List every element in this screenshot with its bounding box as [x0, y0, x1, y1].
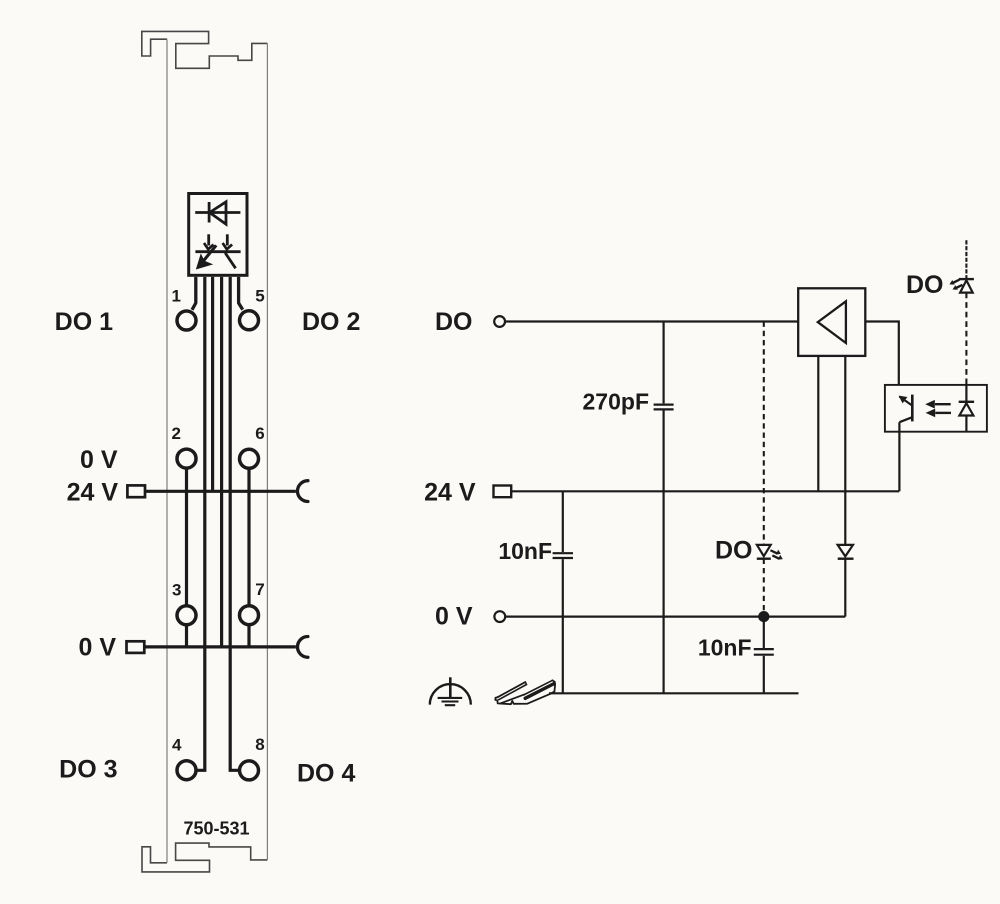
- svg-text:DO 1: DO 1: [55, 308, 113, 336]
- pin wire 5 (to contact 8): [230, 277, 238, 770]
- dashed optical link lower: [763, 559, 765, 612]
- 24V rail right schematic: [511, 490, 899, 492]
- wire contact6-contact7: [247, 468, 250, 606]
- svg-text:10nF: 10nF: [698, 634, 752, 660]
- 24V square terminal left: [127, 485, 145, 497]
- phototransistor emitter arrowhead: [899, 396, 908, 404]
- svg-text:5: 5: [255, 286, 264, 305]
- svg-text:DO 2: DO 2: [302, 308, 360, 336]
- svg-text:1: 1: [172, 286, 181, 305]
- wire 270pF branch upper: [662, 322, 664, 404]
- 0V rail left: [144, 645, 296, 648]
- phototransistor Q1: [899, 395, 912, 492]
- svg-text:750-531: 750-531: [183, 819, 249, 839]
- contact 3: [177, 606, 196, 625]
- module body outline 750-531: [142, 31, 268, 68]
- wire 10nF1 branch upper: [562, 491, 564, 552]
- pin wire 3 (to 24V rail): [211, 277, 214, 491]
- svg-text:4: 4: [172, 736, 182, 755]
- svg-text:DO: DO: [715, 537, 753, 565]
- wire buffer pin to 24V: [817, 356, 819, 491]
- contact 1: [177, 311, 196, 330]
- ground bus line: [549, 692, 799, 694]
- wire DO line: [505, 320, 798, 322]
- wire buffer output: [865, 322, 899, 385]
- svg-text:24 V: 24 V: [424, 478, 476, 506]
- svg-text:6: 6: [255, 424, 264, 443]
- svg-text:0 V: 0 V: [78, 634, 116, 662]
- contact 2: [177, 449, 196, 468]
- pin wire 4 (to 0V rail): [220, 277, 223, 647]
- optocoupler U2 box: [885, 385, 987, 432]
- svg-text:7: 7: [255, 580, 264, 599]
- module body bottom cap: [142, 843, 267, 872]
- wire diode to 0V: [844, 559, 846, 617]
- dashed link above top DO LED: [965, 240, 967, 279]
- wire 10nF2 branch lower: [763, 656, 765, 693]
- 24V square terminal right: [494, 486, 512, 498]
- svg-text:DO: DO: [435, 308, 473, 336]
- LED symbol in indicator box: [195, 234, 240, 268]
- svg-text:DO 3: DO 3: [59, 755, 117, 783]
- contact 6: [240, 449, 259, 468]
- 0V square terminal left: [127, 641, 145, 653]
- capacitor C1 270pF: [654, 405, 674, 410]
- contact 8: [240, 761, 259, 780]
- buffer triangle: [818, 301, 846, 343]
- module body left edge: [166, 39, 168, 863]
- svg-text:0 V: 0 V: [80, 446, 118, 474]
- dashed optical link to DO status LED: [763, 322, 765, 545]
- svg-text:8: 8: [255, 735, 264, 754]
- DIN rail symbol: [495, 680, 555, 704]
- wire contact2-contact3: [185, 468, 188, 606]
- wire contact3 to 0V rail: [185, 625, 188, 647]
- LED DO status: [757, 545, 771, 559]
- wire contact7 to 0V rail: [247, 625, 250, 647]
- 0V jumper contact hook: [298, 637, 308, 658]
- svg-text:DO 4: DO 4: [297, 760, 355, 788]
- svg-text:24 V: 24 V: [67, 479, 119, 507]
- contact 5: [240, 311, 259, 330]
- module body right edge: [266, 43, 268, 860]
- buffer amplifier U1: [798, 288, 865, 356]
- contact 7: [240, 606, 259, 625]
- svg-text:DO: DO: [906, 271, 944, 299]
- svg-text:270pF: 270pF: [583, 389, 649, 415]
- node 0V terminal: [494, 611, 505, 622]
- node DO input terminal: [494, 316, 505, 327]
- pin wire 1: [192, 277, 196, 310]
- capacitor C2 10nF upper: [553, 553, 573, 558]
- optocoupler light arrows: [925, 400, 951, 417]
- 24V rail left: [145, 490, 296, 493]
- 24V jumper contact hook: [297, 481, 307, 502]
- wire 10nF1 branch lower: [562, 559, 564, 693]
- diode D2 free-wheeling: [838, 545, 854, 559]
- svg-text:10nF: 10nF: [498, 538, 552, 564]
- pin wire 6: [239, 277, 243, 310]
- optocoupler LED D3: [959, 385, 974, 432]
- LED DO top indicator: [959, 279, 974, 293]
- wire 270pF branch lower to ground: [662, 411, 664, 694]
- LED DO status emission arrows: [770, 549, 783, 560]
- earth functional ground symbol: [430, 677, 471, 705]
- wire diode branch: [844, 356, 846, 545]
- svg-text:0 V: 0 V: [435, 603, 473, 631]
- indicator box: [189, 194, 247, 276]
- diode D1 in indicator box: [195, 202, 240, 224]
- dashed link optocoupler to top DO LED: [965, 293, 967, 385]
- contact 4: [177, 761, 196, 780]
- 0V line right schematic: [505, 615, 845, 617]
- svg-text:2: 2: [172, 424, 181, 443]
- pin wire 2 (to contact 4): [197, 277, 204, 770]
- capacitor C3 10nF lower: [754, 649, 774, 655]
- LED DO top arrows: [949, 279, 963, 290]
- wire 10nF2 branch upper: [763, 622, 765, 649]
- junction node on 0V: [758, 611, 769, 622]
- svg-text:3: 3: [172, 580, 181, 599]
